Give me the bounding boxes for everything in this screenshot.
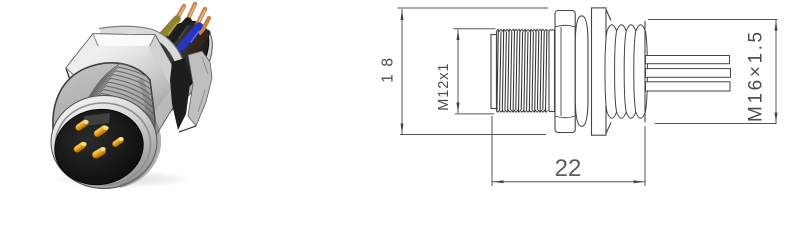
svg-text:22: 22 bbox=[555, 155, 582, 182]
svg-text:18: 18 bbox=[380, 50, 397, 82]
svg-text:M16×1.5: M16×1.5 bbox=[746, 29, 767, 122]
svg-text:M12x1: M12x1 bbox=[436, 63, 452, 111]
